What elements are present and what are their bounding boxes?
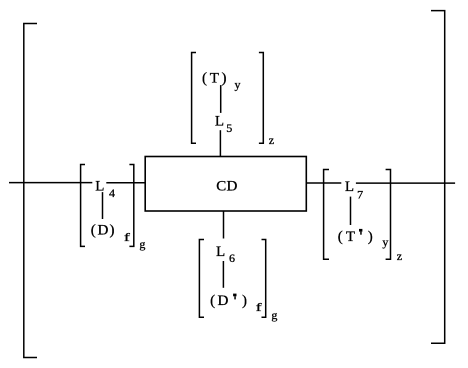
svg-text:y: y: [235, 77, 241, 91]
svg-text:5: 5: [226, 121, 232, 135]
bond L4 to (D): [102, 192, 104, 219]
svg-text:7: 7: [357, 187, 363, 201]
top group bracket right: [259, 53, 263, 144]
svg-text:D: D: [217, 293, 228, 309]
apostrophe of (T'): [359, 229, 362, 235]
svg-text:z: z: [269, 133, 274, 147]
bottom group bracket right: [262, 240, 266, 318]
svg-text:(: (: [338, 229, 343, 245]
svg-text:D: D: [97, 223, 108, 239]
left group bracket left: [81, 165, 85, 247]
bond L6 to (D'): [222, 261, 224, 288]
svg-text:(: (: [202, 70, 207, 86]
wire main chain L7 to right edge: [356, 182, 455, 184]
svg-text:D: D: [226, 178, 237, 194]
top group bracket left: [192, 53, 196, 144]
right group bracket left: [324, 170, 329, 260]
svg-text:): ): [368, 229, 373, 245]
svg-text:): ): [222, 70, 227, 86]
svg-text:g: g: [139, 237, 145, 251]
bond L5 to CD box: [219, 130, 221, 156]
bond (T) to L5: [220, 85, 222, 113]
bond CD box to L6: [223, 211, 225, 239]
outer bracket right: [431, 11, 445, 344]
svg-text:L: L: [216, 244, 225, 260]
svg-text:T: T: [346, 229, 355, 245]
svg-text:f: f: [256, 301, 263, 314]
svg-text:T: T: [210, 70, 219, 86]
left group bracket right: [129, 165, 133, 247]
svg-text:4: 4: [109, 186, 115, 200]
bond L7 to (T'): [350, 197, 352, 225]
svg-text:6: 6: [229, 251, 235, 265]
svg-text:g: g: [271, 308, 277, 322]
svg-text:): ): [242, 293, 247, 309]
wire main chain L4 to CD box: [106, 182, 145, 184]
svg-text:f: f: [124, 231, 131, 244]
svg-text:(: (: [91, 223, 96, 239]
apostrophe of (D'): [233, 294, 236, 300]
CD box: [145, 157, 306, 212]
wire main chain CD box to L7: [306, 182, 341, 184]
svg-text:y: y: [382, 235, 388, 249]
svg-text:C: C: [216, 178, 226, 194]
wire main chain left outer segment: [9, 182, 92, 184]
svg-text:(: (: [210, 293, 215, 309]
svg-text:z: z: [397, 249, 402, 263]
right group bracket right: [386, 170, 391, 260]
svg-text:L: L: [215, 114, 224, 130]
svg-text:): ): [110, 223, 115, 239]
svg-text:L: L: [95, 178, 104, 194]
svg-text:L: L: [345, 179, 354, 195]
bottom group bracket left: [199, 240, 204, 318]
outer bracket left: [24, 24, 37, 358]
